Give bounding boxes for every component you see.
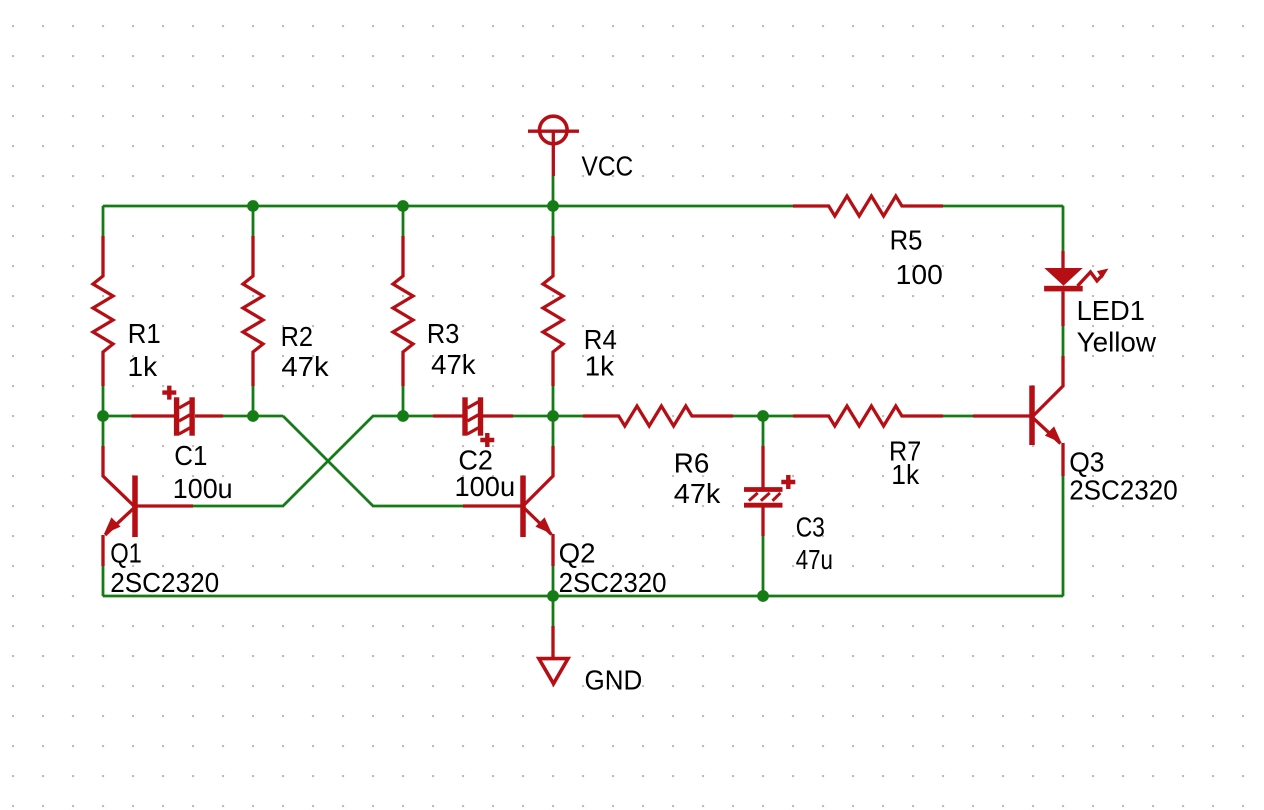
svg-text:R3: R3 [427,318,459,349]
svg-text:1k: 1k [128,351,159,382]
svg-text:R1: R1 [128,318,161,349]
svg-text:C1: C1 [174,440,207,471]
svg-text:Yellow: Yellow [1077,327,1157,358]
svg-text:47u: 47u [796,544,833,575]
svg-text:R5: R5 [890,224,923,255]
svg-text:R6: R6 [674,447,710,478]
svg-text:2SC2320: 2SC2320 [110,567,219,598]
svg-text:47k: 47k [674,478,722,509]
svg-text:1k: 1k [891,459,920,490]
svg-text:2SC2320: 2SC2320 [1069,475,1178,506]
svg-text:2SC2320: 2SC2320 [559,567,667,598]
svg-text:100u: 100u [173,473,233,504]
svg-text:1k: 1k [585,351,615,382]
svg-text:Q1: Q1 [110,538,142,569]
svg-text:VCC: VCC [582,150,634,181]
svg-text:Q2: Q2 [559,538,596,569]
svg-text:100: 100 [896,259,943,290]
svg-text:GND: GND [585,665,643,696]
svg-text:R2: R2 [281,321,313,352]
svg-text:47k: 47k [431,349,476,380]
svg-text:LED1: LED1 [1077,295,1145,326]
svg-text:100u: 100u [455,471,516,502]
svg-text:Q3: Q3 [1069,447,1104,478]
svg-text:C3: C3 [796,512,825,543]
svg-text:47k: 47k [281,351,329,382]
